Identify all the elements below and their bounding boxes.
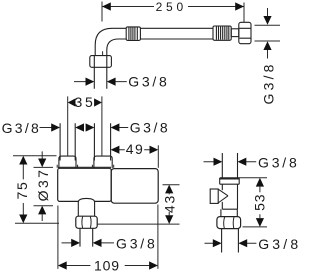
front view collar top thick xyxy=(220,177,240,179)
svg-text:53: 53 xyxy=(252,194,268,211)
arrow nut dim up xyxy=(263,41,271,50)
hose elbow outer bend xyxy=(95,28,126,56)
elbow nut facets xyxy=(94,56,107,67)
arrowheads xyxy=(19,2,271,269)
dim 43 line xyxy=(168,193,170,215)
arrow 49 right xyxy=(150,146,159,154)
arrow fv top left xyxy=(214,158,223,166)
arrow 250 right xyxy=(235,2,244,10)
svg-text:250: 250 xyxy=(156,0,187,14)
dim 75 ext bottom xyxy=(15,222,59,224)
riser pipe 2 xyxy=(94,123,110,160)
arrow outlet G38 left xyxy=(71,239,80,247)
arrow 43 bottom xyxy=(165,215,173,224)
hose tube xyxy=(140,28,213,39)
hose ferrule F2 body xyxy=(213,26,231,40)
svg-text:Ø37: Ø37 xyxy=(35,168,51,202)
dim 250 ext right xyxy=(243,3,245,23)
svg-text:G3/8: G3/8 xyxy=(128,74,169,90)
dim dia37 line xyxy=(41,151,43,221)
arrow 35 left xyxy=(68,98,76,106)
outlet stub pipe xyxy=(80,228,93,246)
outlet nut facets xyxy=(82,217,91,228)
G3/8 right nut ext bottom xyxy=(255,40,281,42)
main body top edge thick xyxy=(58,166,111,168)
svg-text:75: 75 xyxy=(14,181,30,200)
dim 250 ext left xyxy=(101,2,104,56)
arrow 43 top xyxy=(165,185,173,194)
front view bottom G38 leaders xyxy=(205,242,257,244)
arrow dia37 bottom xyxy=(38,206,46,215)
dim 43 ext bottom xyxy=(98,223,180,225)
svg-text:G3/8: G3/8 xyxy=(2,120,42,136)
riser pipe 1 xyxy=(60,123,75,160)
G3/8 row leader left xyxy=(40,127,53,129)
dim 53 line xyxy=(259,187,261,219)
front view nut facets xyxy=(224,217,234,228)
front view side port xyxy=(210,189,218,203)
arrow elbow G38 right xyxy=(107,78,116,86)
hose nut right xyxy=(239,22,251,43)
hose ferrule F1 ribs xyxy=(129,27,137,40)
svg-text:35: 35 xyxy=(75,94,96,110)
G3/8 right vertical dim line xyxy=(267,8,269,59)
front view bottom pipe xyxy=(222,229,239,253)
G3/8 right nut ext top xyxy=(255,24,281,26)
outlet hex nut xyxy=(76,216,97,228)
arrow nut dim down xyxy=(263,16,271,25)
hose ferrule F1 body xyxy=(126,27,140,41)
front view neck xyxy=(221,209,238,216)
arrow 53 top xyxy=(256,178,264,187)
elbow nut xyxy=(90,56,112,68)
front view top pipe xyxy=(222,153,237,178)
main body right housing xyxy=(111,169,158,204)
dim 109 ext right xyxy=(157,205,159,269)
arrow 109 right xyxy=(149,261,158,269)
arrow G38row 2 xyxy=(75,123,84,131)
svg-text:49: 49 xyxy=(126,141,145,157)
dim 75 ext top xyxy=(13,155,57,157)
arrow outlet G38 right xyxy=(93,239,102,247)
hose nut right facets xyxy=(239,28,250,38)
arrow 75 top xyxy=(19,156,27,165)
svg-text:G3/8: G3/8 xyxy=(261,61,277,104)
dim dia37 ext top xyxy=(34,166,54,168)
hose neck xyxy=(231,29,239,37)
hose ferrule F2 ribs xyxy=(216,27,228,40)
dim 49 ext xyxy=(157,145,159,168)
arrow 75 bottom xyxy=(19,215,27,224)
outlet G38 leaders xyxy=(62,242,115,244)
arrow G38row 3 xyxy=(86,123,95,131)
arrow 35 right xyxy=(94,98,102,106)
arrow 49 left xyxy=(111,146,120,154)
G3/8 elbow leader lines xyxy=(74,81,127,83)
dim 250 line xyxy=(102,6,244,8)
front view port cone xyxy=(218,189,228,203)
front view top G38 leaders xyxy=(204,161,257,163)
arrow dia37 top xyxy=(38,159,46,168)
dim 43 ext top xyxy=(163,184,180,186)
svg-text:43: 43 xyxy=(161,194,177,213)
dim 109 ext left xyxy=(57,206,59,269)
arrow fv bottom left xyxy=(213,239,222,247)
svg-text:G3/8: G3/8 xyxy=(116,235,158,251)
arrow 250 left xyxy=(102,2,111,10)
svg-text:G3/8: G3/8 xyxy=(258,155,300,171)
arrow 109 left xyxy=(58,261,67,269)
outlet boss dome xyxy=(78,198,94,216)
boss flange flares xyxy=(57,165,113,168)
elbow stub pipe xyxy=(94,67,107,89)
front view hex nut xyxy=(217,217,241,229)
dim 49 line xyxy=(119,149,150,151)
dim dia37 ext bottom xyxy=(34,205,54,207)
arrow fv top right xyxy=(238,158,247,166)
G3/8 row leader right xyxy=(119,127,128,129)
svg-text:G3/8: G3/8 xyxy=(130,120,170,136)
dim 53 ext top xyxy=(239,177,267,179)
front view body tube xyxy=(222,184,237,209)
dim 53 ext bottom xyxy=(243,226,268,228)
arrow G38row 4 xyxy=(111,123,120,131)
arrow 53 bottom xyxy=(256,218,264,227)
main body left tube xyxy=(58,168,111,201)
dim 75 line xyxy=(22,165,24,215)
hose elbow inner bend xyxy=(107,39,126,56)
main body boss 1 xyxy=(59,156,76,168)
front view collar xyxy=(220,178,240,184)
arrow elbow G38 left xyxy=(86,78,95,86)
arrow G38row 1 xyxy=(51,123,60,131)
svg-text:G3/8: G3/8 xyxy=(258,236,300,252)
main body boss 2 xyxy=(94,156,112,168)
dim 35 ext lines xyxy=(68,96,102,155)
arrow fv bottom right xyxy=(238,239,247,247)
dim 109 line xyxy=(67,265,150,267)
svg-text:109: 109 xyxy=(94,258,120,274)
